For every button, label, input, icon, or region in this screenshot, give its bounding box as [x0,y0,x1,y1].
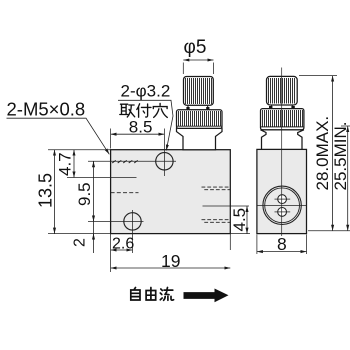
axis center line [281,68,283,237]
svg-text:2: 2 [72,238,89,247]
svg-text:25.5MIN.: 25.5MIN. [331,122,350,191]
svg-text:4.5: 4.5 [230,208,249,232]
wire M5 port thread squiggle [112,160,138,163]
svg-text:2-φ3.2: 2-φ3.2 [121,82,171,101]
dim 13.5 [54,150,56,234]
side port horizontal axis [257,204,306,206]
label toritsuke-ana (mounting hole) kanji [120,104,135,117]
svg-text:9.5: 9.5 [75,182,94,206]
knob front [184,77,214,106]
dim 8.5 [110,129,112,149]
svg-text:28.0MAX.: 28.0MAX. [313,116,332,191]
svg-text:2-M5×0.8: 2-M5×0.8 [7,99,86,120]
dim 25.5MIN [341,125,350,127]
mounting hole lower [124,213,141,230]
small hole upper [278,195,287,204]
svg-text:8: 8 [277,234,287,254]
lock nut front [177,110,223,129]
dim 8 [257,235,307,255]
svg-text:19: 19 [161,251,180,271]
knob side [267,76,298,105]
free flow label kanji (jiyuryu) [131,288,140,301]
body side view [257,149,307,233]
svg-text:φ5: φ5 [184,37,207,58]
wire upper hole center horizontal [88,160,176,162]
dim 19 [111,267,231,269]
wire right port thread dashes [202,186,231,188]
valve lower cylinder side [261,130,304,150]
wire M5 port axis [67,177,137,179]
svg-text:2.6: 2.6 [112,236,134,253]
body front view [111,150,231,234]
mounting hole upper [156,153,173,170]
svg-text:13.5: 13.5 [36,173,56,208]
wire M5 port bottom dashed [111,192,139,194]
valve neck front [188,105,208,110]
wire right port axis [203,205,250,207]
dim 9.5 [93,161,95,253]
valve stem front [177,128,223,150]
free flow arrow [184,289,229,303]
dim 28.0MAX [299,75,337,77]
svg-text:8.5: 8.5 [129,117,153,136]
dim 4.7 [73,150,75,178]
svg-text:4.7: 4.7 [56,152,75,176]
dim 2 [93,234,95,240]
valve neck side [272,105,293,109]
dim 2.6 [110,234,112,272]
lock nut side [261,109,304,130]
dim phi5 [183,63,213,75]
side port boss circles [263,186,301,224]
dim 4.5 [230,233,250,235]
small hole lower [278,208,287,217]
dim 13.5 extension lines [48,150,111,234]
